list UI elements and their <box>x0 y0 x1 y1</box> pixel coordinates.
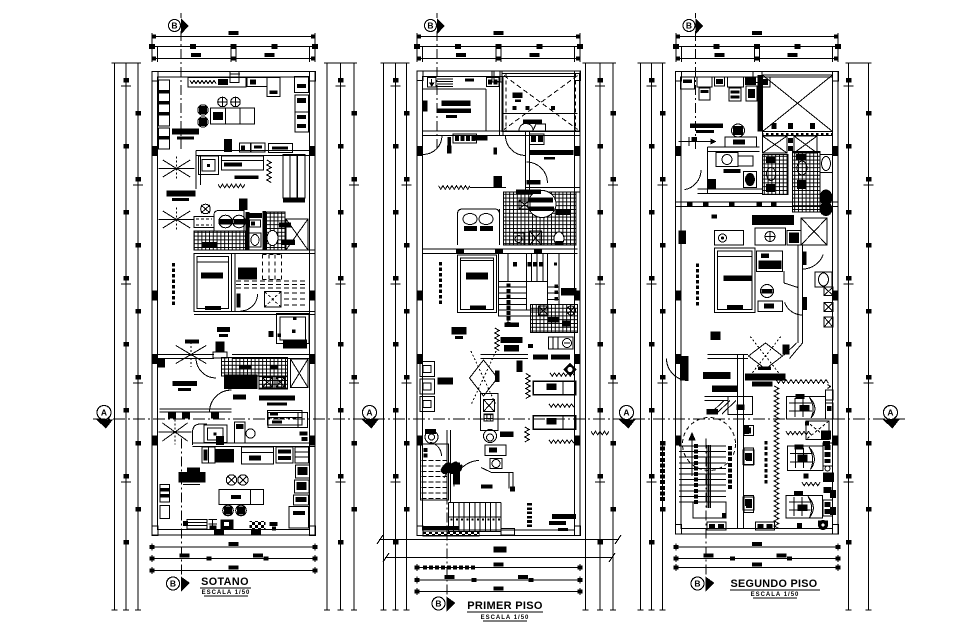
plan2 wall columns <box>417 71 423 81</box>
closet xbox plan1 <box>265 292 282 308</box>
plan3 wall columns <box>676 72 682 82</box>
svg-text:A: A <box>623 408 629 418</box>
plan1 top wall window <box>230 73 240 75</box>
svg-text:A: A <box>887 408 893 418</box>
dining table plan1 <box>211 108 255 124</box>
bed4 closet dashed plan3 <box>806 421 829 440</box>
bath2 black counter plan1 <box>224 375 258 390</box>
section marker B bottom plan2 <box>432 597 445 610</box>
closet door post plan1 <box>236 294 240 308</box>
laundry sink plan1 <box>193 424 207 445</box>
bath center fixtures plan3 <box>766 157 775 163</box>
stair up arrow plan3 <box>691 437 693 476</box>
dimension lines left of plan3 <box>640 63 642 610</box>
lobby label plan2 <box>552 514 576 519</box>
bath vanity plan1 <box>214 211 244 232</box>
section line A-A <box>93 418 905 420</box>
shelf post black plan2 <box>527 180 541 185</box>
section line B plan1 <box>180 31 182 152</box>
entry box plan2 <box>501 529 514 536</box>
hall wall plan3 <box>698 188 763 190</box>
stair dashes plan2 <box>439 262 442 266</box>
closet marks plan3 <box>788 138 793 143</box>
stove plan2 <box>453 134 477 143</box>
phone plan2 <box>425 431 438 444</box>
laundry circle plan1 <box>246 429 255 438</box>
office cabinet plan2 <box>487 78 500 87</box>
bath shower controls plan1 <box>249 213 263 218</box>
label comedor plan1 <box>172 129 199 135</box>
counter bar plan2 <box>475 136 488 141</box>
bath1 vanity plan3 <box>716 153 738 167</box>
desk2 plan3 <box>725 137 757 147</box>
stairs left lower plan2 <box>421 444 449 500</box>
patio wall bottom plan2 <box>502 130 580 132</box>
bed4 cabinet right plan3 <box>826 390 834 400</box>
office wall vertical plan2 <box>499 77 501 136</box>
living wall plan3 <box>708 354 749 356</box>
svg-text:A: A <box>101 408 107 418</box>
small sq plan3 <box>692 137 698 142</box>
couch bars plan3 <box>703 372 731 379</box>
stair base black plan2 <box>423 526 460 531</box>
kitchen tall cabinet plan1 <box>283 155 297 199</box>
plant bowtie plan3 <box>749 343 783 369</box>
dimension lines top plan3 <box>676 36 838 38</box>
section line B plan2 <box>436 31 438 152</box>
kitchen counter top plan1 <box>188 78 246 88</box>
squiggle vertical plan2 <box>495 328 499 351</box>
dimension lines top plan2 <box>417 36 580 38</box>
stair dashed arc plan3 <box>683 418 736 471</box>
bed2 nightstand plan3 <box>743 450 754 465</box>
plan1 wall columns <box>152 72 158 82</box>
bath xbox small plan2 <box>519 200 530 209</box>
patio xbox plan2 <box>502 74 580 132</box>
reception desk plan2 <box>481 394 499 431</box>
bath2 tile plan2 <box>530 304 577 332</box>
hall arc plan2 <box>506 136 526 156</box>
office door icon plan2 <box>428 78 437 88</box>
bath2 shower xbox plan1 <box>291 359 309 388</box>
bath main tile plan2 <box>504 192 577 245</box>
cabinet right plan2 <box>530 134 545 145</box>
stair wall plan3 <box>737 355 739 530</box>
entrance checker plan2 <box>423 532 480 537</box>
waiting chairs plan2 <box>420 362 435 377</box>
bath wall center2 plan1 <box>263 211 267 250</box>
office wall horizontal plan2 <box>423 130 504 132</box>
shower boxes plan3 <box>824 287 833 296</box>
svg-text:B: B <box>427 21 433 31</box>
door arc bath3 plan3 <box>803 255 824 270</box>
text marks mid plan1 <box>217 327 230 332</box>
bbq dome plan2 <box>519 124 533 131</box>
bed3 marks plan3 <box>819 521 828 530</box>
nightlamp between plan3 <box>823 473 834 483</box>
vanity bottom plan3 <box>715 231 744 246</box>
chairs left plan1 <box>198 105 208 115</box>
mid wall right segments plan2 <box>533 355 548 360</box>
closet top-left plan1 <box>159 80 170 126</box>
office hatch lines plan2 <box>437 78 453 80</box>
faucet marks plan1 <box>300 432 308 436</box>
bath tub left plan1 <box>194 217 214 228</box>
stair landing plan3 <box>693 502 726 518</box>
curtain zigzag plan3 <box>776 380 829 384</box>
bedroom closet dashed plan1 <box>231 254 233 312</box>
waiting table plan2 <box>438 378 454 385</box>
bath right tile plan3 <box>793 152 821 213</box>
mid wall plan2 <box>481 354 529 356</box>
games table plan1 <box>219 490 264 505</box>
glass wall dashes plan2 <box>527 503 532 506</box>
toilet plan3 <box>744 172 757 188</box>
bath toilet2 plan1 <box>267 231 278 246</box>
right wall posts plan3 <box>830 490 836 498</box>
post below elevator plan3 <box>744 425 749 434</box>
bath bottom wall plan1 <box>194 249 315 251</box>
stairs upper plan2 <box>499 254 559 316</box>
niche wall plan3 <box>783 271 785 283</box>
wavy line plan1 <box>218 184 245 188</box>
dimension lines top plan1 <box>152 36 315 38</box>
office small marks plan2 <box>465 79 474 82</box>
bath toilet lower plan2 <box>554 232 564 245</box>
bottom row boxes plan3 <box>707 522 726 530</box>
plan2 outer wall <box>417 71 580 536</box>
bed plan2 <box>458 255 497 313</box>
svg-text:B: B <box>171 21 177 31</box>
stairs marks plan2 <box>513 262 517 267</box>
left wall post2 plan3 <box>680 356 689 381</box>
section arrow line plan3 <box>679 141 711 143</box>
wall vertical right plan3 <box>797 245 799 343</box>
door jambs plan2 <box>448 137 452 153</box>
mid wall plan1 <box>158 354 214 356</box>
toilet bidet right plan3 <box>820 190 832 205</box>
section marker B bottom plan1 <box>167 577 180 590</box>
kitchenette row plan1 <box>202 447 215 463</box>
left wall post plan3 <box>679 231 687 245</box>
corridor wavy plan3 <box>774 386 778 529</box>
stairs shelf plan2 <box>561 288 577 296</box>
stairs plan3 <box>679 445 726 447</box>
chair round plan3 <box>732 124 745 137</box>
corridor dotted plan3 <box>765 441 768 445</box>
toilet right plan3 <box>815 272 832 287</box>
elevator box plan3 <box>728 397 753 415</box>
stair wall black plan3 <box>752 215 794 225</box>
closet xbox tall plan3 <box>801 218 827 245</box>
bed3 plan3 <box>786 496 823 519</box>
bath2 tile lower plan1 <box>259 376 288 389</box>
vestibule wall plan2 <box>481 468 513 489</box>
door arc left plan3 <box>685 170 702 190</box>
ground lines below plan2 <box>379 539 619 541</box>
bench plan1 <box>235 176 259 180</box>
patio marks plan3 <box>772 123 777 129</box>
section marker B top plan1 <box>169 20 181 32</box>
bath1 wall plan3 <box>708 146 760 148</box>
door post plan2 <box>495 371 500 383</box>
dresser plan3 <box>758 301 783 312</box>
svg-text:A: A <box>366 408 372 418</box>
closet xbox 2 plan3 <box>794 136 817 153</box>
wall bedroom stairs plan2 <box>423 248 578 250</box>
plant bowtie plan2 <box>470 360 498 396</box>
break line plan1 <box>267 160 271 183</box>
section marker A far right <box>884 406 898 420</box>
bed2 cabinet right plan3 <box>823 443 833 466</box>
stair tick row plan2 <box>423 566 427 570</box>
door post mid plan3 <box>783 345 790 355</box>
dimension lines left of plan1 <box>114 63 116 610</box>
bath vanity ellipse plan2 <box>528 191 556 218</box>
washer plan2 <box>549 337 574 349</box>
patio dotted strip plan3 <box>763 132 833 136</box>
plant symbol mid plan1 <box>171 354 211 356</box>
step bar plan2 <box>481 485 493 489</box>
sofa chairs right plan1 <box>296 465 310 478</box>
coffee tables plan2 <box>501 337 523 343</box>
bath door post plan1 <box>239 199 248 211</box>
stairwell wall plan2 <box>446 430 448 502</box>
section marker A far left <box>97 406 111 420</box>
plant bird icon plan2 <box>441 462 462 474</box>
bottom furniture row plan1 <box>187 520 207 530</box>
bed3 nightstand plan3 <box>743 497 754 510</box>
desk mid-left plan3 <box>690 124 723 129</box>
master bed plan3 <box>715 248 756 313</box>
section marker B top plan2 <box>425 20 437 32</box>
patio wall black plan3 <box>758 75 763 132</box>
hall door jamb plan2 <box>494 148 498 155</box>
svg-text:B: B <box>170 579 176 589</box>
wall vertical mid plan2 <box>525 131 527 192</box>
toilet studio plan2 <box>484 430 497 443</box>
closet right plan1 <box>277 314 310 344</box>
small cabinet mid plan1 <box>216 342 225 353</box>
door arc living plan3 <box>667 359 689 381</box>
car plant symbol 2 plan1 <box>159 219 195 221</box>
desk right 2 plan2 <box>533 416 576 430</box>
ceiling light diamond plan2 <box>564 364 576 376</box>
patio xbox plan3 <box>763 75 833 132</box>
chairs below table plan1 <box>223 505 234 516</box>
desk studio plan2 <box>485 445 506 456</box>
cabinet bottom-right-mid plan1 <box>268 411 303 426</box>
office right squiggle plan2 <box>526 374 530 399</box>
tv mark plan3 <box>711 332 721 341</box>
car plant symbol 1 plan1 <box>159 168 195 170</box>
patio marks plan2 <box>513 93 523 99</box>
dimension lines right of plan2 <box>585 63 587 610</box>
label left plan1 <box>173 381 198 386</box>
sink studio plan2 <box>490 459 502 469</box>
label bath2 plan1 <box>259 396 295 401</box>
washer plan1 <box>235 422 246 443</box>
door arc garage plan1 <box>210 390 232 412</box>
laundry door post plan1 <box>217 437 224 446</box>
svg-text:B: B <box>694 579 700 589</box>
corridor sq plan3 <box>712 215 718 219</box>
bar counter plan1 <box>187 468 200 473</box>
section marker B top plan3 <box>683 20 695 32</box>
closet box right of stairs plan3 <box>744 426 754 436</box>
dimension lines bottom plan2 <box>417 567 580 569</box>
bed3 cabinet right plan3 <box>823 500 833 516</box>
bath center tile plan3 <box>763 155 789 195</box>
bath shower xbox plan1 <box>286 219 308 250</box>
section marker B bottom plan3 <box>691 577 704 590</box>
patio beam line plan2 <box>502 113 578 115</box>
office wall unit plan2 <box>423 101 428 112</box>
section line B plan3 <box>695 31 697 152</box>
stair dashes plan1 <box>172 263 175 267</box>
bedroom bed plan1 <box>194 254 232 312</box>
dimension lines bottom plan3 <box>676 546 838 548</box>
wavy right entry plan2 <box>525 427 529 442</box>
towel marks plan3 <box>724 169 741 173</box>
svg-text:ESCALA 1/50: ESCALA 1/50 <box>202 590 251 596</box>
round table plan3 <box>761 285 774 298</box>
squiggle line plan2 <box>439 186 471 190</box>
wall kitchen plan1 <box>196 150 315 152</box>
bath wall center plan1 <box>246 212 250 251</box>
bath lower wall plan2 <box>499 209 501 245</box>
tub plan3 <box>820 155 833 173</box>
desk bottom-left plan1 <box>160 408 232 410</box>
desk right 1 plan2 <box>533 381 576 395</box>
plant symbol laundry plan1 <box>159 431 192 433</box>
bath lower-left plan2 <box>458 209 500 245</box>
small bar under bowtie plan3 <box>758 367 771 371</box>
bath marks plan2 <box>516 190 541 195</box>
door arc mid plan2 <box>527 162 548 183</box>
bar chairs plan1 <box>226 475 236 485</box>
squiggle right plan2 <box>549 404 574 407</box>
door arc office plan2 <box>423 136 442 155</box>
tall cabinet top-right plan1 <box>295 77 309 93</box>
shelf left-bottom plan1 <box>160 485 170 503</box>
bath2 tile floor plan1 <box>222 358 288 377</box>
dimension lines right of plan3 <box>848 63 850 610</box>
zigzag between beds plan3 <box>802 482 820 485</box>
bidet box plan3 <box>755 228 786 245</box>
bath sink lower plan2 <box>514 233 525 245</box>
bath toilet1 plan1 <box>249 233 261 247</box>
mid wall full plan3 <box>676 201 839 203</box>
svg-text:SOTANO: SOTANO <box>201 576 249 588</box>
sofa marks plan2 <box>452 327 467 335</box>
understair closet plan3 <box>705 396 729 398</box>
laundry wall plan1 <box>193 442 315 444</box>
dining chairs plan1 <box>218 97 228 107</box>
squiggle right2 plan2 <box>549 440 574 443</box>
bath circle plan1 <box>201 204 211 214</box>
closet door arc plan1 <box>241 294 258 311</box>
door arc study plan1 <box>196 358 216 378</box>
wavy above bed2 plan3 <box>786 431 811 434</box>
bath shower lower plan2 <box>530 231 542 245</box>
office desk plan2 <box>442 101 471 107</box>
stair dashes plan3 <box>696 264 699 268</box>
squiggle right0 plan2 <box>550 373 575 376</box>
tick column left of plan3 <box>660 441 665 445</box>
bath tile floor right plan1 <box>267 212 286 250</box>
svg-text:B: B <box>686 21 692 31</box>
dimension lines bottom plan1 <box>152 546 315 548</box>
closet xbox 1 plan3 <box>763 136 788 153</box>
shelf right plan2 <box>530 150 574 155</box>
dimension lines right of plan1 <box>326 63 328 610</box>
bed4 plan3 <box>787 397 826 420</box>
desks row plan1 <box>224 139 232 152</box>
door post plan3 <box>708 179 717 189</box>
plan1 outer wall <box>152 72 315 536</box>
door jamb post plan1 <box>158 359 165 368</box>
door arc2 plan3 <box>785 303 803 316</box>
svg-text:SEGUNDO PISO: SEGUNDO PISO <box>731 578 818 590</box>
section marker A between plan1 plan2 <box>363 406 377 420</box>
entry door arc plan2 <box>454 461 479 487</box>
xblack box plan3 <box>787 231 801 246</box>
wall horizontal mid plan2 <box>526 187 580 189</box>
bath2 fixtures plan2 <box>539 306 549 315</box>
nightstand plan3 <box>757 251 783 272</box>
svg-text:B: B <box>435 599 441 609</box>
svg-text:PRIMER PISO: PRIMER PISO <box>467 600 543 612</box>
svg-text:ESCALA 1/50: ESCALA 1/50 <box>481 615 530 621</box>
office row top plan3 <box>681 77 695 89</box>
office inner room plan2 <box>422 88 486 90</box>
dimension lines left of plan2 <box>383 63 385 610</box>
side table right plan1 <box>289 507 309 529</box>
svg-text:ESCALA 1/50: ESCALA 1/50 <box>751 592 800 598</box>
bed2 plan3 <box>788 446 824 471</box>
bath tile floor left plan1 <box>194 231 246 250</box>
plan3 outer wall <box>676 72 839 535</box>
mark right plan2 <box>591 431 609 435</box>
kitchen sink plan1 <box>199 156 219 175</box>
bath right fixtures plan3 <box>796 154 806 160</box>
cabinet bottom-right-mid plan1 <box>268 413 308 428</box>
stair newel black plan2 <box>453 463 460 485</box>
kitchen counter2 plan1 <box>222 156 264 170</box>
section marker A between plan2 plan3 <box>620 406 634 420</box>
bedroom wall plan1 <box>194 311 315 313</box>
wide stairs plan2 <box>448 502 501 504</box>
